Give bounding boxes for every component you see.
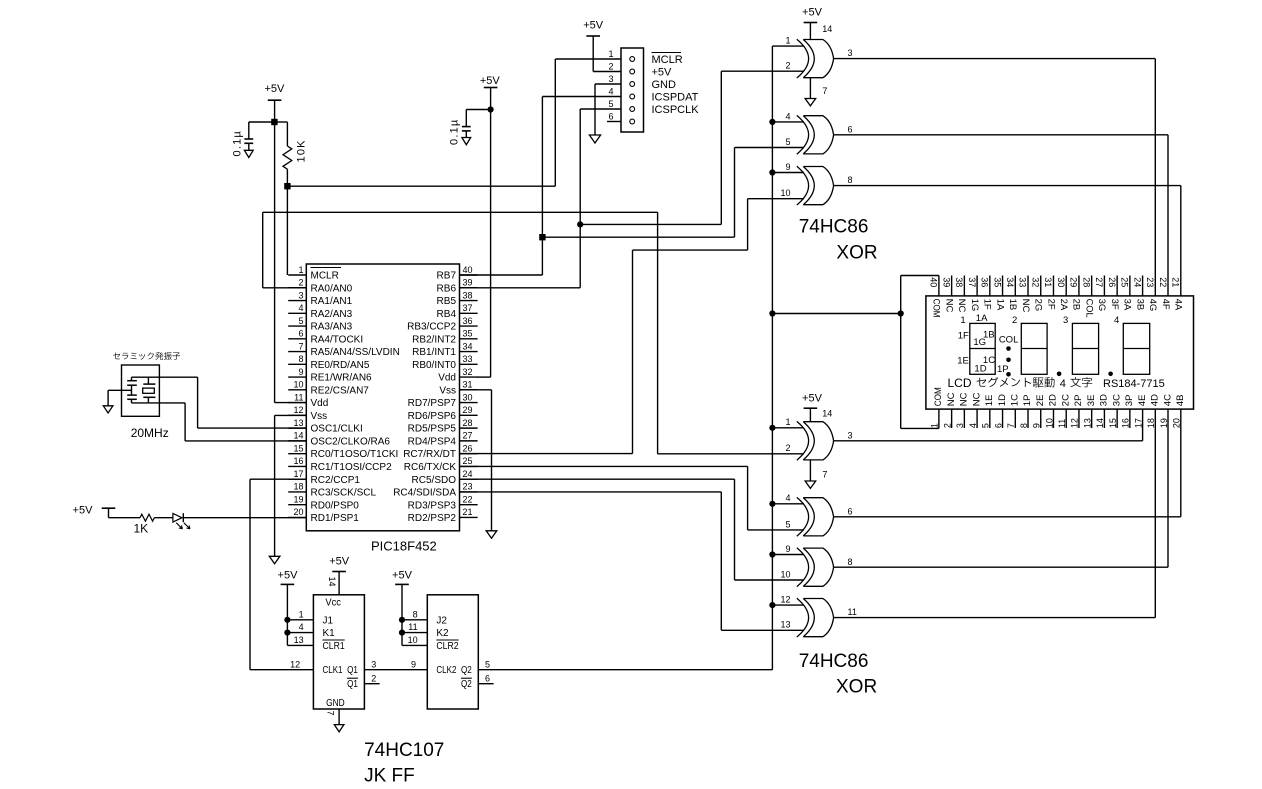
svg-text:1: 1 [608,49,613,59]
U1 pin 25 RC6/TX/CK stub [404,456,478,473]
U4b pin numbers 8/11/10 [408,609,418,645]
svg-text:4B: 4B [1175,395,1186,407]
wire U3 out3 to LCD pin17 [834,409,1143,441]
svg-text:+5V: +5V [278,570,299,582]
svg-text:17: 17 [1133,418,1143,428]
svg-text:CLR1: CLR1 [323,641,346,652]
IC label JK FF [364,765,415,786]
wire U3 out8 to LCD pin19 [834,409,1168,567]
node junction bus gateB pin4 [769,501,775,507]
wire ICSPDAT to XOR gate2 pin5 [542,148,804,238]
U1 pin 32 Vdd stub [438,367,477,384]
svg-text:35: 35 [463,329,473,339]
svg-text:+5V: +5V [264,83,285,95]
node junction J2 [399,617,405,623]
capacitor C2 0.1u [462,110,491,138]
U1 pin 24 RC5/SDO stub [412,469,478,486]
svg-text:RA0/AN0: RA0/AN0 [311,283,353,294]
svg-text:+5V: +5V [652,66,673,78]
power +5V U2 pin14 [802,7,832,40]
CN1 pin 2 stub [608,61,613,71]
svg-text:27: 27 [463,431,473,441]
svg-text:35: 35 [992,277,1002,287]
svg-text:RB6: RB6 [437,283,457,294]
op-gate XOR U2 1/2->3 [772,36,852,79]
wire ICSPCLK to XOR gate1 pin2 [580,71,804,224]
svg-text:0.1µ: 0.1µ [232,130,244,156]
svg-text:OSC1/CLKI: OSC1/CLKI [311,424,363,435]
U1 pin 15 RC0/T1OSO/T1CKI stub [288,443,398,460]
svg-text:28: 28 [463,418,473,428]
LCD top pin 24 3B [1132,276,1145,311]
svg-text:12: 12 [780,595,790,605]
svg-text:RD2/PSP2: RD2/PSP2 [408,513,457,524]
svg-text:15: 15 [1108,418,1118,428]
svg-text:ICSPCLK: ICSPCLK [652,104,700,116]
wire ICSPDAT RB7 net [460,97,622,276]
svg-text:1G: 1G [973,337,986,348]
LCD bottom pin 17 4E [1133,395,1147,429]
wire RC4 pin23 to lower XOR gateD pin13 [460,492,805,630]
LCD top pin 40 COM [929,276,942,318]
svg-text:25: 25 [1120,277,1130,287]
svg-text:4D: 4D [1150,394,1161,406]
svg-text:22: 22 [463,494,473,504]
svg-text:34: 34 [463,341,473,351]
svg-text:Q1: Q1 [347,679,358,690]
wire Vss pin31 to ground [460,390,492,531]
svg-text:4: 4 [608,86,613,96]
svg-text:9: 9 [1032,423,1042,428]
LCD bottom pin 4 NC [968,392,982,428]
LCD caption text [948,376,1165,390]
svg-text:4G: 4G [1147,299,1158,312]
wire U3 out6 to LCD pin20 [834,409,1181,517]
svg-text:4: 4 [1114,315,1119,326]
node junction bus gate3 pin9 [769,169,775,175]
svg-text:RC0/T1OSO/T1CKI: RC0/T1OSO/T1CKI [311,449,399,460]
U1 pin 23 RC4/SDI/SDA stub [393,482,477,499]
LCD bottom pin 12 2P [1070,395,1084,429]
svg-text:8: 8 [1019,423,1029,428]
U1 pin 3 RA1/AN1 stub [288,290,352,307]
svg-text:26: 26 [1107,277,1117,287]
svg-text:Vdd: Vdd [438,373,456,384]
U1 pin 11 Vdd stub [288,392,328,409]
LED D1 [173,513,190,529]
svg-text:24: 24 [1132,277,1142,287]
node junction J1 [284,617,290,623]
LCD digit 2 [1021,323,1047,374]
svg-text:20: 20 [1172,418,1182,428]
svg-text:1B: 1B [1007,299,1018,311]
LCD bottom pin 19 4C [1159,394,1173,428]
svg-text:20: 20 [293,507,303,517]
U1 pin 35 RB2/INT2 stub [412,329,478,346]
svg-text:RC7/RX/DT: RC7/RX/DT [403,449,456,460]
connector CN1 ICSP body [621,48,644,132]
svg-text:31: 31 [463,380,473,390]
resistor R1 10K [274,122,291,275]
IC U1 PIC18F452 body [306,264,459,531]
svg-text:Vss: Vss [311,411,328,422]
svg-text:1P: 1P [1022,395,1033,407]
power +5V U4b J/K/CLR pullup [392,570,427,646]
svg-text:RC4/SDI/SDA: RC4/SDI/SDA [393,488,456,499]
power +5V ICSP [583,20,621,72]
svg-text:2: 2 [608,61,613,71]
LCD top pin 21 4A [1170,277,1183,311]
svg-text:1: 1 [298,265,303,275]
svg-text:+5V: +5V [73,505,94,517]
LCD bottom pin 10 2D [1044,394,1058,428]
svg-text:6: 6 [485,673,490,683]
op-gate XOR U3 9/10->8 [772,544,852,587]
svg-text:5: 5 [981,423,991,428]
LCD bottom pin 2 NC [942,392,956,428]
svg-text:1A: 1A [994,299,1005,311]
U1 pin 16 RC1/T1OSI/CCP2 stub [288,456,392,473]
svg-text:4: 4 [785,493,790,503]
svg-text:MCLR: MCLR [311,271,339,282]
svg-text:K1: K1 [323,628,336,639]
node junction ICSPDAT tap [539,234,545,240]
LCD bottom pin 8 1P [1019,395,1033,429]
ground ICSP [589,135,600,143]
svg-text:2: 2 [371,673,376,683]
wire resonator to OSC2 pin14 [148,403,306,441]
op-gate XOR U3 4/5->6 [772,493,852,536]
svg-text:RD6/PSP6: RD6/PSP6 [408,411,457,422]
resistor R2 1K [140,514,173,521]
svg-text:1G: 1G [969,299,980,312]
ground U3 pin7 [805,460,827,489]
svg-text:4: 4 [1060,378,1066,390]
svg-text:+5V: +5V [802,7,823,19]
svg-text:RB3/CCP2: RB3/CCP2 [407,322,456,333]
svg-text:2: 2 [785,61,790,71]
LCD 1P label and dot [997,364,1011,377]
ground Vss pin31 [486,531,497,538]
wire resonator to OSC1 pin13 [148,377,306,428]
svg-text:32: 32 [1030,277,1040,287]
svg-text:+5V: +5V [583,20,604,32]
svg-text:22: 22 [1158,277,1168,287]
svg-text:2P: 2P [1073,395,1084,407]
LCD top pin 29 2B [1069,276,1082,311]
svg-text:5: 5 [608,99,613,109]
U4a pin numbers 1/4/13/12 [290,609,304,669]
U4a Q1 output pin3 wire to CLK2 [364,659,427,669]
svg-text:1K: 1K [133,522,148,536]
LCD top pin 22 4F [1158,277,1171,310]
U1 pin 6 RA4/TOCKI stub [288,329,363,346]
resistor R1 value 10K [296,139,308,162]
CN1 label +5V [652,66,673,78]
svg-text:8: 8 [413,609,418,619]
svg-text:10: 10 [780,569,790,579]
U4b Q2bar pin6 stub [478,673,493,683]
LCD module body RS184-7715 [926,296,1194,409]
LCD top pin 25 3A [1120,276,1133,311]
svg-text:1D: 1D [974,363,986,374]
svg-text:RB5: RB5 [437,296,457,307]
capacitor C1 value 0.1µ [232,130,244,156]
svg-text:8: 8 [848,175,853,185]
IC label XOR upper [836,243,877,264]
svg-text:NC: NC [959,392,970,406]
node junction bus gateC pin9 [769,551,775,557]
U1 pin 18 RC3/SCK/SCL stub [288,482,376,499]
CN1 label MCLR [652,53,683,66]
svg-text:30: 30 [1056,277,1066,287]
svg-text:+5V: +5V [802,392,823,404]
U1 pin 39 RB6 stub [437,278,478,295]
svg-text:38: 38 [954,277,964,287]
svg-text:1D: 1D [997,394,1008,406]
IC U4b JK-FF body [427,595,478,709]
U1 pin 12 Vss stub [288,405,327,422]
LCD bottom pin 13 3E [1082,395,1096,429]
svg-text:29: 29 [1069,277,1079,287]
svg-text:33: 33 [1018,277,1028,287]
CN1 pin 4 stub [608,86,613,96]
svg-text:RC2/CCP1: RC2/CCP1 [311,475,361,486]
wire +5V to Vdd pin11 [275,100,307,402]
svg-text:4E: 4E [1137,395,1148,407]
IC U4a JK-FF body [313,595,364,709]
wire Vss pin12 to ground [275,415,307,556]
svg-text:RA2/AN3: RA2/AN3 [311,309,353,320]
LCD top pin 36 1F [980,276,993,310]
LCD top pin 37 1G [967,276,980,312]
U1 pin 22 RD3/PSP3 stub [408,494,478,511]
svg-text:6: 6 [848,506,853,516]
power +5V LED [73,505,116,517]
svg-text:27: 27 [1094,277,1104,287]
wire ICSPCLK RB6 net [460,109,622,288]
svg-text:7: 7 [1006,423,1016,428]
svg-text:3C: 3C [1111,394,1122,406]
svg-text:11: 11 [408,622,417,632]
svg-text:RE2/CS/AN7: RE2/CS/AN7 [311,385,370,396]
U1 pin 29 RD6/PSP6 stub [408,405,478,422]
svg-text:RB4: RB4 [437,309,457,320]
svg-text:4C: 4C [1162,394,1173,406]
svg-text:Vcc: Vcc [325,597,341,608]
LCD top pin 30 2A [1056,276,1069,311]
svg-text:7: 7 [298,341,303,351]
svg-text:14: 14 [1095,418,1105,428]
svg-text:CLR2: CLR2 [436,641,459,652]
wire COM to XOR bus [772,313,900,315]
svg-text:12: 12 [290,659,300,669]
svg-text:LCD: LCD [948,376,972,390]
svg-text:6: 6 [848,124,853,134]
IC label 74HC86 upper [799,217,869,238]
wire MCLR horizontal [287,185,555,187]
svg-text:36: 36 [463,316,473,326]
svg-text:10: 10 [780,188,790,198]
svg-text:J1: J1 [323,615,334,626]
wire XOR common input bus from Q2 [480,46,772,670]
LCD bottom pin 16 3P [1121,395,1135,429]
svg-text:Vss: Vss [439,385,456,396]
svg-text:23: 23 [463,482,473,492]
U4a Q1bar pin2 stub [364,673,379,683]
svg-text:4: 4 [299,622,304,632]
CN1 label ICSPDAT [652,91,699,103]
CN1 label GND [652,79,677,91]
svg-text:RD7/PSP7: RD7/PSP7 [408,398,457,409]
svg-text:3: 3 [955,423,965,428]
svg-text:1: 1 [785,417,790,427]
svg-text:CLK1: CLK1 [323,665,343,676]
svg-text:8: 8 [848,557,853,567]
svg-text:ICSPDAT: ICSPDAT [652,91,699,103]
LCD bottom pin 14 3D [1095,394,1109,428]
LCD top pin 39 NC [941,276,954,313]
node junction +5V/C1/R1 [271,119,277,125]
U1 pin 10 RE2/CS/AN7 stub [288,380,369,397]
LCD top pin 23 4G [1145,277,1158,311]
svg-text:K2: K2 [436,628,449,639]
capacitor C2 value 0.1µ [449,119,461,145]
svg-text:13: 13 [780,620,790,630]
IC label XOR lower [836,676,877,697]
svg-text:74HC86: 74HC86 [799,651,869,672]
svg-text:4: 4 [968,423,978,428]
svg-text:RB0/INT0: RB0/INT0 [412,360,456,371]
op-gate XOR U3 12/13->11 [772,595,856,638]
svg-text:21: 21 [1170,277,1180,287]
ground Vss pin12 [269,556,280,563]
U1 pin 1 MCLR stub [288,265,341,282]
U1 pin 14 OSC2/CLKO/RA6 stub [288,431,390,448]
LCD top pin 26 3F [1107,276,1120,310]
wire +5V to Vdd pin32 [477,88,491,378]
svg-text:5: 5 [298,316,303,326]
svg-text:0.1µ: 0.1µ [449,119,461,145]
svg-text:RD0/PSP0: RD0/PSP0 [311,500,360,511]
svg-text:20MHz: 20MHz [131,426,169,440]
U1 pin 4 RA2/AN3 stub [288,303,352,320]
svg-text:34: 34 [1005,277,1015,287]
U1 pin 19 RD0/PSP0 stub [288,494,359,511]
svg-text:13: 13 [293,418,303,428]
svg-text:3: 3 [848,430,853,440]
node junction COM [898,310,904,316]
U1 pin 20 RD1/PSP1 stub [288,507,359,524]
LCD top pin 27 3G [1094,276,1107,312]
svg-text:40: 40 [929,277,939,287]
svg-text:16: 16 [1121,418,1131,428]
U1 pin 30 RD7/PSP7 stub [408,392,478,409]
IC label 74HC107 [364,740,444,761]
svg-text:2E: 2E [1035,395,1046,407]
svg-text:RC6/TX/CK: RC6/TX/CK [404,462,457,473]
svg-text:RA1/AN1: RA1/AN1 [311,296,353,307]
LCD top pin 31 2F [1043,276,1056,310]
wire U2 out6 to LCD pin22 [834,135,1168,296]
node junction K1 [284,630,290,636]
wire CN1 pin1 to MCLR net [555,59,621,186]
svg-text:1C: 1C [1009,394,1020,406]
svg-text:7: 7 [822,86,827,96]
svg-text:36: 36 [980,277,990,287]
LCD top pin 33 NC [1018,276,1031,313]
node junction K2 [399,630,405,636]
U1 pin 34 RB1/INT1 stub [412,341,478,358]
svg-text:3E: 3E [1086,395,1097,407]
CN1 pin 6 stub [607,111,621,121]
svg-text:COL: COL [999,335,1019,346]
wire RC7 pin26 to upper XOR gate3 pin10 [460,199,805,454]
ground resonator [103,406,113,413]
svg-text:15: 15 [293,443,303,453]
power +5V U4a J/K/CLR pullup [278,570,314,646]
U1 pin 13 OSC1/CLKI stub [288,418,363,435]
svg-text:18: 18 [1146,418,1156,428]
svg-text:2D: 2D [1048,394,1059,406]
svg-text:11: 11 [1057,419,1067,428]
svg-text:Q2: Q2 [461,665,472,676]
svg-text:RD3/PSP3: RD3/PSP3 [408,500,457,511]
svg-text:10: 10 [1044,418,1054,428]
svg-text:4F: 4F [1160,299,1171,310]
U1 pin 27 RD4/PSP4 stub [408,431,478,448]
svg-text:11: 11 [848,607,857,617]
svg-text:32: 32 [463,367,473,377]
svg-text:16: 16 [293,456,303,466]
svg-text:3: 3 [1063,315,1068,326]
svg-text:14: 14 [822,24,832,34]
svg-text:Q1: Q1 [347,665,358,676]
svg-text:COM: COM [933,387,944,406]
LCD digit 3 [1072,323,1098,374]
svg-text:17: 17 [293,469,303,479]
svg-text:2: 2 [942,423,952,428]
LCD bottom pin 18 4D [1146,394,1160,428]
svg-text:RS184-7715: RS184-7715 [1103,378,1165,390]
LCD digit 1 [970,323,995,374]
wire resonator to ground [108,390,131,406]
svg-text:RA4/TOCKI: RA4/TOCKI [311,334,364,345]
svg-text:RC3/SCK/SCL: RC3/SCK/SCL [311,488,377,499]
svg-text:NC: NC [946,392,957,406]
svg-text:28: 28 [1081,277,1091,287]
wire U3 out11 to LCD pin18 [834,409,1156,617]
op-gate XOR U3 1/2->3 [772,417,852,460]
svg-text:2: 2 [1012,315,1017,326]
svg-text:74HC86: 74HC86 [799,217,869,238]
ground C1 [244,150,253,157]
svg-text:NC: NC [956,299,967,313]
svg-text:JK FF: JK FF [364,765,415,786]
svg-text:2G: 2G [1033,299,1044,312]
svg-text:RE0/RD/AN5: RE0/RD/AN5 [311,360,370,371]
node junction ICSPCLK tap [577,221,583,227]
svg-text:XOR: XOR [836,243,877,264]
node junction bus gate2 pin4 [769,119,775,125]
svg-text:5: 5 [785,137,790,147]
CN1 pin 3 stub [608,74,613,84]
svg-text:RA5/AN4/SS/LVDIN: RA5/AN4/SS/LVDIN [311,347,400,358]
U1 pin 9 RE1/WR/AN6 stub [288,367,372,384]
op-gate XOR U2 9/10->8 [772,162,852,205]
svg-text:9: 9 [298,367,303,377]
ground U4a GND pin7 [326,709,344,732]
